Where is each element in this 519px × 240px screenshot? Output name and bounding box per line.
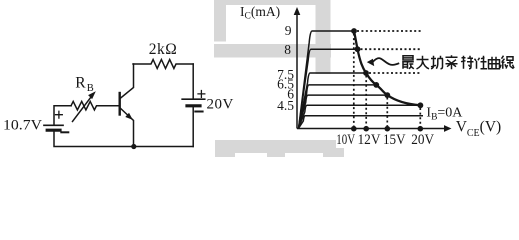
- svg-text:10V: 10V: [336, 132, 355, 148]
- svg-text:2kΩ: 2kΩ: [149, 41, 178, 58]
- svg-text:12V: 12V: [358, 132, 381, 148]
- svg-text:9: 9: [285, 23, 292, 38]
- svg-text:B: B: [87, 83, 94, 94]
- svg-text:20V: 20V: [207, 97, 234, 113]
- svg-text:8: 8: [284, 42, 291, 57]
- svg-text:4.5: 4.5: [277, 98, 294, 113]
- svg-text:10.7V: 10.7V: [3, 118, 42, 134]
- svg-text:R: R: [75, 75, 86, 92]
- svg-text:15V: 15V: [383, 132, 406, 148]
- svg-text:20V: 20V: [411, 132, 434, 148]
- svg-text:VCE(V): VCE(V): [456, 119, 502, 139]
- svg-text:IC(mA): IC(mA): [240, 4, 280, 21]
